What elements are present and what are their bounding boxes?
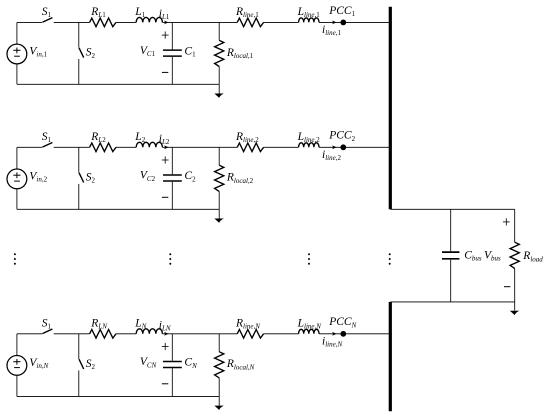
wire: top rail to switch S2 (converter N): [78, 334, 80, 359]
wire: converter 1 top rail segment (source to switch S1): [17, 21, 42, 23]
inductor L_line,2: [299, 143, 319, 148]
wire: node to R_local,1: [218, 22, 220, 40]
wire: inductor to node (converter 2): [162, 146, 237, 148]
wire: resistor to inductor (converter 2): [116, 146, 136, 148]
wire: node to capacitor C1: [171, 22, 173, 49]
ellipsis dots (line column): [308, 253, 310, 264]
polarity - of V_bus: [504, 286, 510, 288]
label V_in,N: [29, 357, 48, 370]
node PCCN: [340, 331, 346, 337]
switch S2 (converter 1): [79, 48, 84, 58]
wire: source - to bottom rail (converter 2): [16, 189, 18, 210]
svg-text:PCC1: PCC1: [328, 5, 355, 18]
polarity + of V_C1: [162, 32, 169, 39]
resistor R_local,1: [215, 40, 224, 66]
inductor L2: [136, 142, 162, 147]
label V_CN: [140, 356, 157, 369]
wire: node to capacitor CN: [171, 334, 173, 361]
resistor R_local,N: [215, 352, 224, 378]
wire: load bottom rail to bus: [390, 301, 514, 303]
label S2 (converter 2): [86, 172, 96, 185]
wire: switch S1 to node (converter 1): [54, 21, 90, 23]
wire: load top rail to capacitor C_bus: [450, 209, 452, 251]
label L_line,2: [297, 131, 321, 144]
label PCCN: [328, 316, 356, 329]
capacitor C_bus: [442, 252, 459, 259]
wire: R_line,1 to L_line,1: [264, 21, 299, 23]
ground (load): [510, 311, 520, 315]
capacitor C2: [163, 175, 182, 181]
label R_L2: [90, 131, 106, 144]
node S1 label (converter N): [42, 318, 52, 331]
switch S1 (converter 2): [42, 143, 52, 148]
switch S2 (converter 2): [79, 173, 84, 183]
wire: top rail to source + (converter 2): [16, 147, 18, 169]
resistor R_line,N: [237, 330, 263, 339]
DC bus bar (lower segment): [389, 302, 392, 411]
resistor R_LN: [90, 330, 116, 339]
resistor R_L2: [90, 143, 116, 152]
node S1 label (converter 1): [42, 6, 52, 19]
wire: capacitor C1 to bottom rail: [171, 57, 173, 85]
label i_L2: [159, 133, 170, 146]
label PCC2: [328, 130, 355, 143]
label C2: [184, 170, 196, 183]
wire: converter N top rail segment (source to switch S1): [17, 333, 42, 335]
polarity - of V_CN: [162, 383, 168, 385]
current arrow i_LN: [164, 332, 168, 336]
wire: bus to load top rail: [390, 208, 514, 210]
label S2 (converter N): [86, 358, 96, 371]
resistor R_line,2: [237, 143, 263, 152]
label i_line,1: [322, 24, 341, 37]
label i_L1: [159, 8, 170, 21]
wire: inductor to node (converter N): [162, 333, 237, 335]
polarity + of V_C2: [162, 156, 169, 163]
label L1: [134, 6, 145, 19]
wire: top rail to source + (converter 1): [16, 22, 18, 44]
DC bus bar (upper segment): [389, 7, 392, 210]
label R_local,2: [226, 172, 254, 185]
resistor R_L1: [90, 18, 116, 27]
label C_bus: [464, 249, 482, 262]
node S1 label (converter 2): [42, 131, 52, 144]
ground (converter 2): [214, 219, 224, 223]
wire: top rail to switch S2 (converter 1): [78, 22, 80, 47]
label V_C2: [140, 170, 156, 183]
label R_LN: [90, 318, 107, 331]
wire: R_line,N to L_line,N: [264, 333, 299, 335]
voltage source V_in,1: [7, 44, 27, 64]
current arrow i_L1: [164, 21, 168, 25]
wire: capacitor C2 to bottom rail: [171, 182, 173, 210]
voltage source V_in,N: [7, 356, 27, 376]
current arrow i_line,1: [332, 21, 336, 25]
wire: R_load to load bottom rail: [514, 268, 516, 302]
inductor L_line,N: [299, 329, 319, 334]
label V_bus: [484, 249, 501, 262]
label V_in,2: [29, 170, 47, 183]
voltage source V_in,2: [7, 169, 27, 189]
wire: R_local,N to bottom rail: [218, 378, 220, 397]
label i_line,N: [322, 336, 342, 349]
label L_line,1: [297, 6, 321, 19]
wire: resistor to inductor (converter 1): [116, 21, 136, 23]
label LN: [134, 318, 146, 331]
wire: node to capacitor C2: [171, 147, 173, 174]
label R_local,N: [226, 358, 255, 371]
label V_C1: [140, 45, 156, 58]
wire: bottom rail (converter 2): [17, 208, 219, 210]
label PCC1: [328, 5, 355, 18]
current arrow i_line,2: [332, 145, 336, 149]
wire: node to R_local,N: [218, 334, 220, 352]
label R_line,1: [235, 6, 259, 19]
wire: bottom rail (converter 1): [17, 83, 219, 85]
label R_load: [522, 250, 543, 263]
wire: ground stub (converter 2): [218, 209, 220, 218]
wire: L_line,1 to bus: [319, 21, 390, 23]
inductor L_line,1: [299, 18, 319, 23]
current arrow i_line,N: [332, 332, 336, 336]
current arrow i_L2: [164, 145, 168, 149]
switch S1 (converter N): [42, 329, 52, 334]
label L_line,N: [297, 318, 322, 331]
wire: switch S1 to node (converter N): [54, 333, 90, 335]
label S2 (converter 1): [86, 47, 96, 60]
wire: ground stub (converter 1): [218, 84, 220, 93]
label R_local,1: [226, 47, 254, 60]
node PCC1: [340, 20, 346, 26]
wire: resistor to inductor (converter N): [116, 333, 136, 335]
label R_line,2: [235, 131, 259, 144]
inductor LN: [136, 329, 162, 334]
wire: inductor to node (converter 1): [162, 21, 237, 23]
label L2: [134, 131, 145, 144]
ellipsis dots (bus column): [389, 253, 391, 264]
wire: top rail to switch S2 (converter 2): [78, 147, 80, 172]
svg-text:PCC2: PCC2: [328, 130, 355, 143]
wire: ground stub (load): [514, 302, 516, 311]
capacitor C1: [163, 50, 182, 56]
polarity + of V_bus: [503, 218, 510, 225]
switch S1 (converter 1): [42, 18, 52, 23]
label V_in,1: [29, 46, 47, 59]
polarity - of V_C2: [162, 196, 168, 198]
label R_line,N: [235, 318, 260, 331]
wire: node to R_local,2: [218, 147, 220, 165]
wire: switch S2 to bottom rail (converter 1): [78, 59, 80, 84]
wire: switch S2 to bottom rail (converter N): [78, 370, 80, 396]
wire: L_line,2 to bus: [319, 146, 390, 148]
wire: ground stub (converter N): [218, 396, 220, 405]
wire: source - to bottom rail (converter 1): [16, 64, 18, 85]
resistor R_local,2: [215, 165, 224, 191]
inductor L1: [136, 17, 162, 22]
wire: R_local,1 to bottom rail: [218, 67, 220, 85]
ellipsis dots (left column): [14, 253, 16, 264]
ellipsis dots (capacitor column): [169, 253, 171, 264]
switch S2 (converter N): [79, 359, 84, 369]
wire: converter 2 top rail segment (source to switch S1): [17, 146, 42, 148]
polarity - of V_C1: [162, 71, 168, 73]
wire: load top rail to R_load: [514, 209, 516, 242]
wire: bottom rail (converter N): [17, 395, 219, 397]
label i_line,2: [322, 149, 341, 162]
wire: top rail to source + (converter N): [16, 334, 18, 356]
label i_LN: [159, 320, 171, 333]
label C1: [184, 45, 196, 58]
wire: capacitor C_bus to load bottom rail: [450, 260, 452, 302]
node PCC2: [340, 144, 346, 150]
ground (converter 1): [214, 94, 224, 98]
ground (converter N): [214, 406, 224, 410]
wire: switch S2 to bottom rail (converter 2): [78, 184, 80, 209]
label CN: [184, 357, 197, 370]
wire: L_line,N to bus: [319, 333, 390, 335]
wire: source - to bottom rail (converter N): [16, 375, 18, 396]
label R_L1: [90, 6, 106, 19]
wire: R_local,2 to bottom rail: [218, 191, 220, 209]
wire: capacitor CN to bottom rail: [171, 368, 173, 396]
polarity + of V_CN: [162, 343, 169, 350]
resistor R_load: [510, 242, 519, 268]
wire: R_line,2 to L_line,2: [264, 146, 299, 148]
resistor R_line,1: [237, 18, 263, 27]
wire: switch S1 to node (converter 2): [54, 146, 90, 148]
capacitor CN: [163, 362, 182, 368]
